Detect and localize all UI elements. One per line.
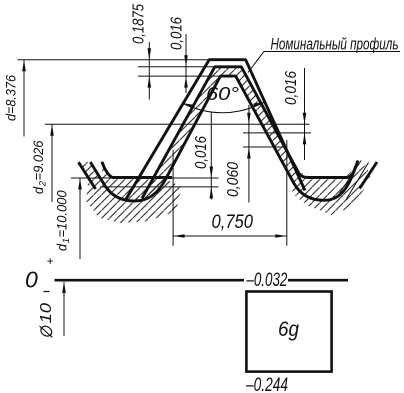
svg-text:0: 0 bbox=[25, 267, 38, 293]
label diameter 10 (rotated) bbox=[38, 303, 55, 338]
svg-text:1: 1 bbox=[61, 238, 72, 243]
dimension line d=8.376 bbox=[23, 60, 25, 137]
arrow line for diameter 10 bbox=[63, 282, 65, 336]
svg-text:=10.000: =10.000 bbox=[54, 190, 70, 237]
max-material (es) profile: flank, crest flat, right root flat bbox=[142, 67, 358, 199]
svg-text:0,016: 0,016 bbox=[169, 17, 186, 50]
dimension line d2=9.026 bbox=[51, 124, 53, 202]
hatch: left root zone between flat root and rounded root bbox=[100, 163, 172, 201]
svg-text:0,016: 0,016 bbox=[283, 71, 300, 105]
extension line 0,750 left bbox=[172, 150, 174, 246]
min-material (ei) profile: left rounded root, crest flat, right rounded root bbox=[90, 76, 355, 201]
left adjacent thread flank stub bbox=[79, 162, 96, 189]
right adjacent thread flank stub bbox=[360, 162, 377, 189]
svg-text:0,1875: 0,1875 bbox=[131, 4, 148, 44]
hatch: left root material spill below arc bbox=[86, 179, 182, 223]
extension line, es crest level bbox=[138, 66, 216, 68]
dimension line 0,750 bbox=[173, 235, 287, 237]
thin flank continuation line right 2 bbox=[346, 163, 369, 200]
svg-text:Номинальный профиль: Номинальный профиль bbox=[271, 36, 399, 54]
svg-text:0,060: 0,060 bbox=[225, 162, 242, 197]
svg-text:=9.026: =9.026 bbox=[30, 140, 46, 180]
hatch: band between left thread stubs bbox=[79, 162, 105, 186]
dimension line d1=10.000 bbox=[79, 178, 81, 259]
svg-text:0,016: 0,016 bbox=[193, 136, 210, 169]
svg-text:–0.244: –0.244 bbox=[245, 375, 288, 393]
extension line, pitch diameter level d2=9.026 bbox=[45, 123, 310, 125]
extension line, nominal crest level d=8.376 bbox=[18, 59, 211, 61]
svg-text:+: + bbox=[47, 254, 54, 268]
svg-text:10: 10 bbox=[38, 303, 55, 324]
nominal thread profile (outer) bbox=[126, 60, 306, 200]
svg-text:60°: 60° bbox=[206, 84, 239, 104]
tolerance field rectangle 6g bbox=[246, 292, 331, 372]
extension line, root flat level d1=10.000 bbox=[71, 177, 219, 179]
dimension line 0,1875 bbox=[148, 42, 150, 100]
extension line, lower pitch level bbox=[243, 132, 311, 134]
svg-text:0,750: 0,750 bbox=[212, 212, 254, 233]
leader line for label Номинальный профиль bbox=[248, 52, 400, 73]
hatch: tolerance zone, apex cap between es and ei crests bbox=[215, 67, 242, 76]
dimension line 0,016 top bbox=[185, 34, 187, 93]
minus sign bbox=[44, 291, 50, 293]
dimension line 0,016 right flank bbox=[304, 68, 306, 160]
left root flat of es profile with lead-in bbox=[102, 162, 172, 178]
hatch: tolerance zone, right flank band bbox=[236, 67, 357, 200]
svg-text:6g: 6g bbox=[278, 317, 299, 341]
extension line for 0,060 lower bound bbox=[243, 146, 285, 148]
dimension line 0,060 bbox=[248, 105, 250, 203]
hatch: tolerance zone, left flank band bbox=[142, 67, 220, 199]
hatch: right root material spill below arc bbox=[292, 165, 371, 215]
dimension line 0,016 root bbox=[210, 112, 212, 200]
svg-text:d=8.376: d=8.376 bbox=[3, 75, 19, 121]
extension line, lower root level bbox=[100, 186, 219, 188]
svg-text:–0.032: –0.032 bbox=[246, 270, 288, 291]
zero line (right segment) bbox=[288, 279, 348, 282]
dimension arc 60 degrees bbox=[182, 102, 265, 113]
extension line, ei crest level bbox=[138, 75, 221, 77]
zero line (left segment) bbox=[55, 279, 245, 282]
thin flank continuation line right 1 bbox=[337, 161, 361, 198]
extension line 0,750 right bbox=[286, 140, 288, 246]
